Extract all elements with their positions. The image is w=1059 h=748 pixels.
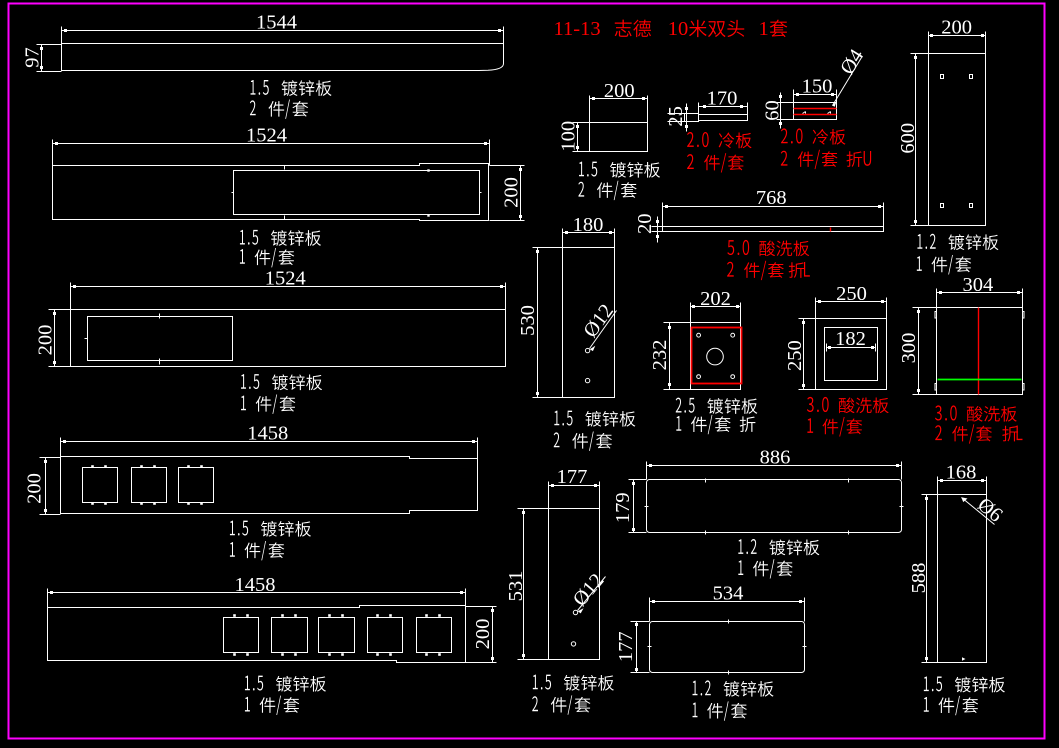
svg-text:250: 250 xyxy=(836,283,867,305)
leader M3 dia4 xyxy=(833,58,862,106)
dim M5 180 xyxy=(563,232,615,234)
svg-text:250: 250 xyxy=(784,340,806,371)
part B bend nick top xyxy=(284,166,286,170)
label C qty xyxy=(241,396,246,411)
label M10 material xyxy=(738,539,743,554)
dim E 200 xyxy=(492,607,494,663)
dim R2 588 xyxy=(926,495,928,663)
part C inner panel xyxy=(88,317,233,361)
dim M7 182 xyxy=(827,347,876,349)
label D qty xyxy=(230,542,235,557)
label E material xyxy=(245,676,250,691)
part M4 red tick xyxy=(830,228,832,232)
svg-text:177: 177 xyxy=(557,466,588,488)
svg-text:588: 588 xyxy=(908,563,930,594)
label M6 material xyxy=(676,398,682,413)
svg-text:1458: 1458 xyxy=(247,423,288,445)
part M8 corner notches xyxy=(935,312,1024,391)
hole M5 lower xyxy=(585,378,589,382)
svg-text:304: 304 xyxy=(963,274,994,296)
part E outline xyxy=(48,606,466,663)
part M3 hole mark 1 xyxy=(803,112,806,114)
part B inner panel xyxy=(234,171,480,215)
svg-text:150: 150 xyxy=(802,76,833,98)
label M1 qty xyxy=(578,182,584,197)
part B bend nick bottom xyxy=(284,216,286,220)
label M2 material xyxy=(687,132,694,147)
svg-text:Ø12: Ø12 xyxy=(580,300,619,341)
label M7 qty xyxy=(807,418,813,433)
svg-text:534: 534 xyxy=(713,583,744,605)
leader R2 dia6 xyxy=(962,498,995,525)
svg-text:Ø6: Ø6 xyxy=(973,494,1006,527)
part B inner tick right xyxy=(480,192,482,194)
dim M3 60 xyxy=(780,93,782,129)
svg-text:232: 232 xyxy=(649,340,671,371)
dim M6 232 xyxy=(669,323,671,390)
part M10 outline xyxy=(647,480,902,533)
part M5 outline xyxy=(563,248,615,398)
label R1 qty xyxy=(917,256,922,271)
leader M9 dia12 xyxy=(578,577,606,611)
part M3 fold line xyxy=(794,102,837,104)
dim M4 768 xyxy=(663,206,884,208)
part D outline xyxy=(61,457,478,514)
label E qty xyxy=(245,697,250,712)
part M3 red line 1 xyxy=(794,108,837,110)
label B qty xyxy=(240,249,245,264)
svg-text:200: 200 xyxy=(472,619,494,650)
dim M2 170 xyxy=(699,106,748,108)
label M9 material xyxy=(533,675,538,690)
label R2 qty xyxy=(924,697,929,712)
svg-text:25: 25 xyxy=(665,106,687,127)
label M2 qty xyxy=(687,154,694,169)
dim M1 100 xyxy=(577,123,579,152)
svg-text:1: 1 xyxy=(759,18,769,40)
label A qty xyxy=(250,100,256,115)
dim M3 150 xyxy=(794,94,837,96)
dim C 200 xyxy=(54,310,56,367)
dim M4 20 xyxy=(657,217,659,243)
dim M5 530 xyxy=(537,248,539,398)
part B inner nick top xyxy=(427,169,429,171)
label M9 qty xyxy=(532,696,538,711)
svg-text:170: 170 xyxy=(707,88,738,110)
svg-text:1544: 1544 xyxy=(256,12,297,34)
label R2 material xyxy=(924,676,929,691)
svg-text:200: 200 xyxy=(604,80,635,102)
label M5 qty xyxy=(554,432,560,447)
svg-text:182: 182 xyxy=(835,328,866,350)
hole M9 dia12 xyxy=(573,610,577,614)
svg-text:97: 97 xyxy=(22,47,44,68)
label M11 qty xyxy=(693,703,698,718)
part R2 outline xyxy=(938,495,987,663)
label D material xyxy=(230,521,235,536)
part M8 outline xyxy=(937,308,1023,395)
label M11 material xyxy=(693,681,698,696)
part M7 inner frame xyxy=(825,328,878,381)
leader M5 dia12 xyxy=(590,311,617,349)
part M4 outline xyxy=(663,227,884,232)
label M10 qty xyxy=(738,560,743,575)
svg-text:531: 531 xyxy=(505,571,527,602)
label M4 qty xyxy=(727,262,734,277)
dim D 200 xyxy=(45,458,47,515)
svg-text:10: 10 xyxy=(668,18,689,40)
part M9 outline xyxy=(549,509,600,660)
dim M1 200 xyxy=(590,98,648,100)
svg-text:168: 168 xyxy=(946,462,977,484)
dim M2 25 xyxy=(686,104,688,132)
dim E 1458 xyxy=(48,592,466,594)
dim C 1524 xyxy=(71,286,506,288)
dim R1 600 xyxy=(915,54,917,226)
dim M7 250 top xyxy=(816,301,887,303)
part M1 outline xyxy=(590,99,648,152)
svg-text:200: 200 xyxy=(24,473,46,504)
part M7 outline xyxy=(816,319,887,390)
svg-text:20: 20 xyxy=(634,213,656,234)
label C material xyxy=(241,374,246,389)
dim M8 304 xyxy=(937,292,1023,294)
dim A 1544 xyxy=(62,30,504,32)
svg-text:1524: 1524 xyxy=(246,125,287,147)
dim M11 177 xyxy=(636,622,638,673)
svg-text:100: 100 xyxy=(557,121,579,152)
svg-text:200: 200 xyxy=(35,325,57,356)
label M3 qty xyxy=(781,151,788,166)
svg-text:1524: 1524 xyxy=(265,268,306,290)
part M6 outline xyxy=(691,323,741,390)
part M6 center hole xyxy=(707,348,724,365)
svg-text:600: 600 xyxy=(897,123,919,154)
part C tick left xyxy=(85,338,88,340)
hole M9 lower xyxy=(571,642,575,646)
part R2 bottom mark xyxy=(962,657,966,661)
part B inner tick left xyxy=(232,192,234,194)
part D cutout squares xyxy=(83,468,118,503)
part C nick top xyxy=(159,314,161,319)
dim M9 177 xyxy=(549,485,600,487)
svg-text:11-13: 11-13 xyxy=(554,18,601,40)
label M8 material xyxy=(935,405,942,420)
dim A 97 xyxy=(41,45,43,72)
label M6 qty xyxy=(676,416,681,431)
label R1 material xyxy=(917,234,922,249)
dim R1 200 xyxy=(929,35,986,37)
part M3 outline xyxy=(794,95,837,120)
part C outline xyxy=(71,310,506,367)
part M1 fold line xyxy=(590,122,648,124)
label M4 material xyxy=(727,240,734,255)
part M3 red line 2 xyxy=(794,114,837,116)
dim M9 531 xyxy=(523,509,525,660)
dim D 1458 xyxy=(61,441,478,443)
part C nick bottom xyxy=(159,359,161,365)
svg-text:Ø12: Ø12 xyxy=(569,570,609,611)
dim M11 534 xyxy=(650,601,805,603)
svg-text:1458: 1458 xyxy=(235,574,276,596)
dim B 200 xyxy=(520,166,522,221)
svg-text:Ø4: Ø4 xyxy=(836,46,868,79)
svg-text:179: 179 xyxy=(612,492,634,523)
dim M6 202 xyxy=(691,306,741,308)
part B outline xyxy=(53,164,489,221)
hole M5 dia12 xyxy=(585,348,589,352)
part M11 bend ticks xyxy=(728,620,730,624)
part A outline 1544x97 slab xyxy=(62,44,504,71)
part M6 corner holes xyxy=(697,333,701,337)
svg-text:768: 768 xyxy=(756,187,787,209)
part M11 outline xyxy=(650,622,805,673)
label M5 material xyxy=(554,411,559,426)
part R1 outline xyxy=(929,54,986,226)
part M3 hole mark 2 xyxy=(828,112,831,114)
dim B 1524 xyxy=(53,143,490,145)
part E cutout squares xyxy=(224,618,259,653)
part R1 hole marks xyxy=(941,75,944,79)
label M7 material xyxy=(807,397,814,412)
svg-text:177: 177 xyxy=(615,631,637,662)
dim M8 300 xyxy=(918,308,920,395)
label M8 qty xyxy=(935,425,942,440)
svg-text:300: 300 xyxy=(898,333,920,364)
part M8 red bend line xyxy=(978,308,980,395)
part M6 red frame xyxy=(692,328,742,384)
part M2 outline xyxy=(685,114,699,122)
dim M10 179 xyxy=(633,480,635,533)
label M3 material xyxy=(781,128,788,143)
svg-text:60: 60 xyxy=(762,100,784,121)
svg-text:200: 200 xyxy=(501,177,523,208)
dim R2 168 xyxy=(938,480,987,482)
label A material xyxy=(251,80,256,95)
dim M10 886 xyxy=(647,465,902,467)
part M10 bend ticks xyxy=(705,479,707,483)
part M8 green line xyxy=(938,379,1022,381)
svg-text:202: 202 xyxy=(700,288,731,310)
label M1 material xyxy=(579,162,584,177)
svg-text:530: 530 xyxy=(517,305,539,336)
svg-text:180: 180 xyxy=(573,214,604,236)
label B material xyxy=(240,230,245,245)
dim M7 250 left xyxy=(803,319,805,390)
part B inner nick bottom xyxy=(427,214,429,216)
svg-text:886: 886 xyxy=(760,446,791,468)
svg-text:200: 200 xyxy=(941,17,972,39)
